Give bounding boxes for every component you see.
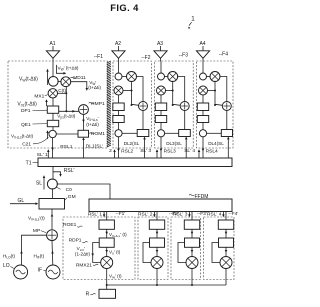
junction dot mixer branch F3 bbox=[172, 90, 174, 92]
svg-text:DL1(SL': DL1(SL' bbox=[86, 144, 103, 150]
box DP1 bbox=[21, 106, 59, 114]
coupler node circle F3 bbox=[158, 73, 165, 80]
box QE3 bbox=[155, 116, 166, 123]
box DP3 bbox=[155, 103, 166, 111]
dashed box block F4' bbox=[204, 217, 235, 280]
wire DP2 box to QE2 box bbox=[118, 111, 120, 116]
wire MP left down to oscillator LO with H_LO(t) arrow bbox=[3, 235, 47, 265]
box DP2 bbox=[113, 103, 124, 111]
dashed box block F1' bbox=[63, 217, 135, 280]
wire MD41 right elbow down into adder RMP4 bbox=[219, 77, 226, 102]
wire FFDM down to ROE3 with RSL' arrow bbox=[173, 211, 192, 220]
svg-text:--F1': --F1' bbox=[116, 211, 126, 217]
dashed box block F3 bbox=[155, 61, 194, 148]
mixer MD21 (upper right) bbox=[127, 72, 137, 82]
mixer RMX41 bbox=[220, 257, 232, 269]
wire FFDM down to ROE4 with RSL' arrow bbox=[207, 211, 226, 220]
svg-text:RSL' 2: RSL' 2 bbox=[138, 211, 153, 217]
svg-text:RDP1: RDP1 bbox=[69, 238, 82, 244]
coupler node circle F2 bbox=[115, 73, 122, 80]
junction dot C(t) branch bbox=[65, 92, 67, 94]
box ROE2 bbox=[149, 220, 164, 229]
wire C(t) branch into MX1 bbox=[58, 92, 67, 94]
junction dot bus col3 bbox=[191, 284, 193, 286]
wire antenna stem into coupler F4 bbox=[202, 62, 204, 74]
svg-text:IF: IF bbox=[38, 267, 42, 273]
wire coupler to mixer MD31 bbox=[165, 76, 169, 78]
wire MP down to oscillator IF with H_IF(t) arrow bbox=[34, 241, 54, 265]
wire DP3 box to QE3 box bbox=[160, 111, 162, 116]
wire MD21 right elbow down into adder RMP2 bbox=[136, 77, 143, 102]
wire ROE3 to RDP3 bbox=[191, 229, 194, 238]
wire C41 down to T1 as RSL4 bbox=[202, 137, 218, 158]
box ROE3 bbox=[184, 220, 199, 229]
label RDP1 bbox=[69, 238, 88, 244]
box RDP2 bbox=[150, 238, 165, 247]
arrow SL' up into F1 bbox=[37, 149, 50, 158]
hatched break strip at F1 right edge bbox=[107, 61, 111, 147]
wire V_LO' elbow into mixer RMX21 left bbox=[143, 243, 151, 263]
wire MX4 to DP4 bbox=[202, 95, 204, 103]
adder RMP1 bbox=[79, 101, 105, 115]
oscillator IF bbox=[38, 265, 60, 279]
arrow SL' up into F3 bbox=[156, 149, 159, 157]
label VW'(t) at RMX21 output bbox=[109, 274, 122, 280]
wire MD31 right elbow down into adder RMP3 bbox=[177, 77, 185, 102]
svg-text:SL: SL bbox=[36, 181, 42, 187]
box T1 (delay line) bbox=[26, 158, 232, 167]
label V(0+d,s)'(t) at ROE1 output bbox=[109, 232, 127, 238]
input arrow GL into GM bbox=[10, 198, 38, 205]
antenna A3 bbox=[154, 41, 167, 62]
svg-text:DL2(SL: DL2(SL bbox=[124, 141, 140, 146]
arrow DL3 from T1 up into ROM3 bbox=[166, 137, 187, 159]
signal stub VW'(t+dti) output of MD11 bbox=[71, 80, 102, 91]
wire mixer RMX21 down to sum bus bbox=[156, 268, 158, 285]
svg-text:DL4(SL: DL4(SL bbox=[208, 141, 224, 146]
dashed box block F2 bbox=[113, 61, 152, 148]
box RDP4 bbox=[219, 238, 234, 247]
svg-text:RSL': RSL' bbox=[64, 168, 75, 174]
wire C0 right to FFDM bbox=[57, 184, 110, 199]
wire MX2 to DP2 bbox=[118, 95, 120, 103]
mixer MX3 bbox=[157, 86, 166, 95]
box ROE1 bbox=[99, 220, 114, 229]
svg-text:R: R bbox=[86, 292, 90, 298]
svg-text:SL' 4: SL' 4 bbox=[184, 148, 195, 154]
box ROM1 bbox=[78, 130, 105, 137]
arrow SL' up into F2 bbox=[113, 149, 116, 157]
junction dot mixer branch F4 bbox=[214, 90, 216, 92]
reference numeral 1 with leader arrow bbox=[187, 16, 195, 30]
signal arrow V(0-d,s)(t-dti) bbox=[11, 130, 49, 139]
wire adder RMP3 to box RSL3 bbox=[184, 111, 186, 130]
wire MX2 to branch line bbox=[123, 90, 132, 92]
mixer RMX11 bbox=[101, 257, 113, 269]
mixer MD31 (upper right) bbox=[168, 72, 178, 82]
wire branch to adder RMP3 bbox=[173, 104, 181, 105]
svg-text:T1: T1 bbox=[26, 160, 32, 166]
wire coupler to mixer MD21 bbox=[122, 76, 127, 78]
svg-text:ROM1: ROM1 bbox=[91, 131, 105, 137]
junction dot bus col1 bbox=[106, 284, 108, 286]
wire MD21 bottom down branch bbox=[131, 81, 133, 105]
wire RMP1 to ROM1 with signal labels bbox=[82, 114, 99, 130]
wire branch to adder RMP4 bbox=[215, 104, 222, 105]
wire MX4 to branch line bbox=[208, 90, 216, 92]
adder RMP2 bbox=[139, 102, 148, 111]
signal arrow V01(t-dti) bbox=[17, 99, 47, 107]
wire DP1 to QE1 bbox=[52, 113, 54, 120]
wire T1 down to circle C0 bbox=[52, 167, 54, 180]
mixer RMX21 bbox=[151, 257, 163, 269]
wire FFDM down to ROE1 with RSL' arrow bbox=[88, 211, 107, 220]
arrow DL4 from T1 up into ROM4 bbox=[208, 137, 229, 159]
box RDP3 bbox=[185, 238, 200, 247]
wire adder RMP4 to box RSL4 bbox=[226, 111, 228, 130]
box GM bbox=[39, 194, 76, 209]
wire coupler to MD11 bbox=[58, 81, 61, 83]
wire DP1 output to adder RMP1 with arrow bbox=[57, 110, 79, 120]
circle C41 bbox=[199, 130, 206, 137]
svg-text:RMP1: RMP1 bbox=[91, 101, 105, 107]
circle C0 bbox=[47, 179, 72, 193]
wire MD11 output down to junction bbox=[65, 87, 67, 112]
sum bus wire at bottom bbox=[107, 284, 226, 286]
box QE1 bbox=[21, 120, 59, 128]
box QE2 bbox=[113, 116, 124, 123]
wire mixer RMX31 down to sum bus bbox=[191, 268, 193, 285]
arrow DL1(SL') from T1 up into ROM1 bbox=[82, 137, 103, 158]
dashed box block F2' bbox=[138, 217, 168, 280]
signal arrow VW(t-dti) bbox=[19, 69, 49, 85]
arrow DL2 from T1 up into ROM2 bbox=[124, 137, 146, 159]
svg-text:RSL4: RSL4 bbox=[206, 148, 218, 154]
svg-text:C21: C21 bbox=[22, 141, 31, 147]
svg-text:1: 1 bbox=[191, 16, 195, 23]
wire branch to adder RMP2 bbox=[132, 104, 139, 105]
wire adder RMP2 to box RSL2 bbox=[142, 111, 144, 130]
label VLO' (1-2dti) with arrow bbox=[75, 246, 94, 257]
svg-text:ROE1: ROE1 bbox=[63, 222, 76, 228]
svg-text:--F4: --F4 bbox=[219, 52, 228, 58]
box ROE4 bbox=[218, 220, 233, 229]
svg-text:--F3: --F3 bbox=[179, 53, 188, 59]
wire DP4 box to QE4 box bbox=[202, 111, 204, 116]
svg-text:QE1: QE1 bbox=[21, 122, 31, 128]
branch arrow RSL' from T1 bbox=[53, 168, 75, 177]
circle C31 bbox=[157, 130, 164, 137]
wire FFDM down to ROE2 with RSL' arrow bbox=[138, 211, 157, 220]
svg-text:--F3': --F3' bbox=[197, 211, 207, 217]
box ROM4 bbox=[221, 130, 232, 137]
wire C21 down to T1 as RSL2 bbox=[117, 137, 133, 158]
antenna A4 bbox=[196, 41, 209, 62]
coupler node circle F1 bbox=[48, 76, 58, 86]
wire C31 down to T1 as RSL3 bbox=[160, 137, 176, 158]
wire QE3 to C31 circle bbox=[160, 123, 162, 130]
wire C21 to ROM1 bbox=[56, 133, 78, 135]
adder MP bbox=[33, 228, 57, 241]
wire MP adder up into GM with signal label bbox=[28, 209, 53, 230]
svg-text:RMX21: RMX21 bbox=[76, 262, 92, 268]
junction dot adder feed F4 bbox=[214, 104, 216, 106]
svg-text:RSL1: RSL1 bbox=[60, 144, 72, 150]
wire RDP2 to mixer RMX21 bbox=[156, 247, 159, 256]
svg-text:(t+Δti): (t+Δti) bbox=[86, 122, 99, 127]
mixer MX2 bbox=[114, 86, 123, 95]
label RMX21 bbox=[76, 262, 98, 268]
signal elbow arrow VW'(t+dti) into MD11 bbox=[56, 65, 79, 75]
antenna A2 bbox=[112, 41, 125, 62]
svg-text:2: 2 bbox=[109, 148, 112, 154]
mixer MD41 (upper right) bbox=[210, 72, 220, 82]
svg-text:C(t): C(t) bbox=[58, 88, 66, 93]
wire RDP4 to mixer RMX41 bbox=[225, 247, 228, 256]
wire antenna stem into coupler F3 bbox=[160, 62, 162, 74]
svg-text:--F2: --F2 bbox=[141, 55, 150, 61]
svg-text:DP1: DP1 bbox=[21, 108, 31, 114]
circle C21 bbox=[115, 130, 122, 137]
svg-text:DL3(SL: DL3(SL bbox=[166, 141, 182, 146]
wire C41 to ROM4 box bbox=[207, 132, 222, 134]
label V0'(t) at RDP1 output bbox=[109, 249, 121, 255]
dashed box block F1 bbox=[8, 61, 108, 148]
wire MD31 bottom down branch bbox=[172, 81, 174, 105]
box RDP1 bbox=[99, 238, 114, 247]
wire MX3 to DP3 bbox=[160, 95, 162, 103]
wire mixer RMX41 down to sum bus bbox=[225, 268, 227, 285]
wire C31 to ROM3 box bbox=[165, 132, 179, 134]
wire ROE1 to RDP1 bbox=[105, 229, 108, 238]
adder RMP4 bbox=[222, 102, 231, 111]
mixer MD11 bbox=[61, 75, 86, 86]
mixer RMX31 bbox=[186, 257, 198, 269]
label ROE1 bbox=[63, 222, 82, 228]
wire C21 down to T1 as RSL1 bbox=[51, 138, 72, 158]
wire QE4 to C41 circle bbox=[202, 123, 204, 130]
circle C21 bbox=[22, 130, 56, 147]
junction dot bus col2 bbox=[156, 284, 158, 286]
wire mixer RMX11 down to sum bus bbox=[106, 268, 108, 285]
svg-text:MD11: MD11 bbox=[73, 75, 86, 81]
arrow SL' up into F4 bbox=[198, 149, 201, 157]
mixer MX4 bbox=[199, 86, 208, 95]
svg-text:--F1: --F1 bbox=[94, 54, 103, 60]
coupler node circle F4 bbox=[200, 73, 207, 80]
svg-text:C0: C0 bbox=[66, 187, 72, 193]
junction dot mixer branch F2 bbox=[131, 90, 133, 92]
wire RDP1 to mixer RMX11 bbox=[105, 247, 108, 256]
svg-text:MX1: MX1 bbox=[34, 93, 44, 99]
wire coupler to mixer MD41 bbox=[207, 76, 211, 78]
wire ROE4 to RDP4 bbox=[225, 229, 228, 238]
svg-text:GM: GM bbox=[68, 194, 76, 200]
junction dot at DP1 output line bbox=[65, 110, 67, 112]
arrow SL up beside C0 bbox=[36, 175, 45, 189]
junction dot adder feed F2 bbox=[131, 104, 133, 106]
svg-text:RSL' 3: RSL' 3 bbox=[173, 211, 188, 217]
wire C0 to GM box bbox=[51, 188, 53, 198]
wire MX3 to branch line bbox=[166, 90, 173, 92]
box R bbox=[86, 289, 116, 298]
wire V_LO' elbow into mixer RMX41 left bbox=[212, 243, 220, 263]
svg-text:V01(t-Δti): V01(t-Δti) bbox=[17, 101, 37, 107]
adder RMP3 bbox=[180, 102, 189, 111]
svg-text:FIG. 4: FIG. 4 bbox=[110, 2, 139, 13]
wire QE2 to C21 circle bbox=[118, 123, 120, 130]
svg-text:(1-2Δti): (1-2Δti) bbox=[75, 252, 91, 257]
dashed box block F3' bbox=[171, 217, 201, 280]
wire ROE2 to RDP2 bbox=[156, 229, 159, 238]
svg-text:RSL2: RSL2 bbox=[121, 148, 133, 154]
svg-text:RSL' 1: RSL' 1 bbox=[88, 211, 103, 217]
wire MD41 bottom down branch bbox=[214, 81, 216, 105]
wire V_LO' elbow into mixer RMX11 left bbox=[93, 243, 101, 263]
box FFDM bbox=[89, 194, 232, 212]
svg-text:VW(t-Δti): VW(t-Δti) bbox=[19, 76, 38, 82]
svg-text:SL' 1: SL' 1 bbox=[37, 152, 48, 158]
box DP4 bbox=[197, 103, 208, 111]
svg-text:RSL' 4: RSL' 4 bbox=[207, 211, 222, 217]
antenna A1 bbox=[46, 41, 59, 62]
wire bus down into box R bbox=[106, 285, 108, 289]
wire QE1 to C21 bbox=[52, 127, 54, 131]
dashed box block F4 bbox=[196, 61, 233, 148]
wire antenna stem into coupler F2 bbox=[118, 62, 120, 74]
wire MX1 to DP1 bbox=[52, 98, 54, 106]
svg-text:MP: MP bbox=[33, 228, 40, 234]
junction dot adder feed F3 bbox=[172, 104, 174, 106]
svg-text:LO: LO bbox=[3, 263, 10, 269]
wire C21 to ROM2 box bbox=[122, 132, 137, 134]
wire RDP3 to mixer RMX31 bbox=[191, 247, 194, 256]
box ROM2 bbox=[137, 130, 149, 137]
box ROM3 bbox=[179, 130, 191, 137]
box QE4 bbox=[197, 116, 208, 123]
svg-text:(t+Δti): (t+Δti) bbox=[88, 85, 101, 90]
oscillator LO bbox=[3, 263, 28, 279]
wire V_LO' elbow into mixer RMX31 left bbox=[178, 243, 186, 263]
svg-text:--F4': --F4' bbox=[229, 211, 239, 217]
svg-text:SL' 3: SL' 3 bbox=[140, 148, 151, 154]
svg-text:RSL3: RSL3 bbox=[164, 148, 176, 154]
svg-text:FFDM: FFDM bbox=[195, 194, 209, 200]
wire antenna A1 stem into coupler bbox=[52, 62, 54, 78]
svg-text:GL: GL bbox=[18, 198, 25, 204]
mixer MX1 bbox=[34, 89, 57, 100]
